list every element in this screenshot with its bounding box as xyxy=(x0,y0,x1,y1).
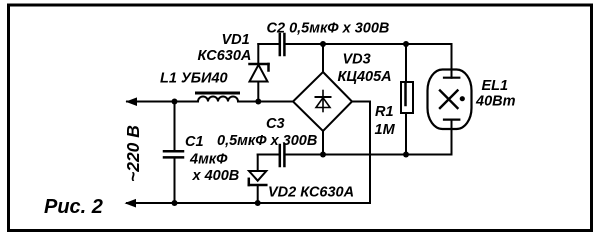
zener diode VD1 xyxy=(250,65,268,82)
svg-text:VD2 КС630А: VD2 КС630А xyxy=(268,185,354,201)
wire L1 to bridge left vertex xyxy=(238,101,293,103)
svg-text:VD3: VD3 xyxy=(343,51,371,67)
lamp EL1 top electrode xyxy=(444,77,459,79)
junction C1 bottom xyxy=(172,200,178,206)
wire C3 to DC rail junction xyxy=(285,154,323,156)
node A junction (L1 / VD1) xyxy=(255,99,261,105)
arrow left terminal bottom xyxy=(125,199,137,208)
zener diode VD2 xyxy=(249,171,266,181)
svg-text:С2 0,5мкФ х 300В: С2 0,5мкФ х 300В xyxy=(267,21,390,37)
wire C3 corner horizontal xyxy=(258,154,279,156)
wire bridge right vertex to corner xyxy=(352,102,370,204)
svg-text:4мкФ: 4мкФ xyxy=(189,152,228,168)
wire VD1 bottom stem xyxy=(257,82,259,102)
wire top rail to R1 xyxy=(323,43,406,45)
wire bottom AC rail xyxy=(127,202,370,204)
junction C1 top xyxy=(172,99,178,105)
junction R1 bottom xyxy=(403,152,409,158)
capacitor C2 xyxy=(279,34,282,55)
inductor L1 core bar xyxy=(197,92,239,95)
junction DC rail / bridge bottom / C3 xyxy=(320,152,326,158)
wire C1 bottom stem xyxy=(174,159,176,204)
wire C2 to bridge top junction xyxy=(285,43,323,45)
junction VD2 bottom xyxy=(255,200,261,206)
svg-text:КЦ405А: КЦ405А xyxy=(338,69,392,85)
svg-text:~220 В: ~220 В xyxy=(123,125,143,182)
bridge inner diode xyxy=(316,91,330,112)
capacitor C3 xyxy=(279,145,282,166)
wire top rail to lamp corner xyxy=(406,44,452,78)
wire C1 top stem xyxy=(174,102,176,151)
lamp EL1 envelope xyxy=(428,70,472,130)
svg-text:С1: С1 xyxy=(185,134,204,150)
svg-text:R1: R1 xyxy=(375,104,394,120)
wire VD1 corner to C2 xyxy=(258,43,279,45)
wire R1 bottom stem xyxy=(405,113,407,155)
lamp EL1 bottom electrode xyxy=(444,118,459,120)
junction R1 top xyxy=(403,41,409,47)
wire lamp bottom stem xyxy=(451,120,453,155)
junction bridge top / top rail xyxy=(320,41,326,47)
svg-text:L1 УБИ40: L1 УБИ40 xyxy=(160,70,228,86)
svg-text:Рис. 2: Рис. 2 xyxy=(44,196,103,218)
lamp EL1 X mark xyxy=(440,91,458,109)
svg-text:VD1: VD1 xyxy=(222,32,250,48)
capacitor C1 xyxy=(164,150,183,153)
svg-text:1М: 1М xyxy=(375,122,396,138)
svg-text:0,5мкФ х 300В: 0,5мкФ х 300В xyxy=(217,133,317,149)
inductor L1 coil xyxy=(198,97,238,102)
wire VD2 top stem xyxy=(257,155,259,172)
svg-text:EL1: EL1 xyxy=(482,78,509,94)
wire VD1 top stem xyxy=(257,44,259,64)
wire DC rail C3 to lamp xyxy=(285,154,452,156)
wire R1 top stem xyxy=(405,44,407,82)
svg-text:40Вт: 40Вт xyxy=(475,94,516,110)
lamp EL1 gas dot xyxy=(460,96,465,101)
wire top AC line from arrow to L1 xyxy=(127,101,198,103)
svg-text:С3: С3 xyxy=(266,116,285,132)
svg-text:х 400В: х 400В xyxy=(192,168,240,184)
resistor R1 xyxy=(401,82,413,113)
arrow left terminal top xyxy=(126,97,138,106)
wire bridge top stem xyxy=(322,44,324,72)
wire VD2 bottom stem xyxy=(257,185,259,203)
svg-text:КС630А: КС630А xyxy=(198,48,252,64)
bridge rectifier VD3 diamond xyxy=(293,72,352,131)
wire bridge bottom stem xyxy=(322,131,324,155)
